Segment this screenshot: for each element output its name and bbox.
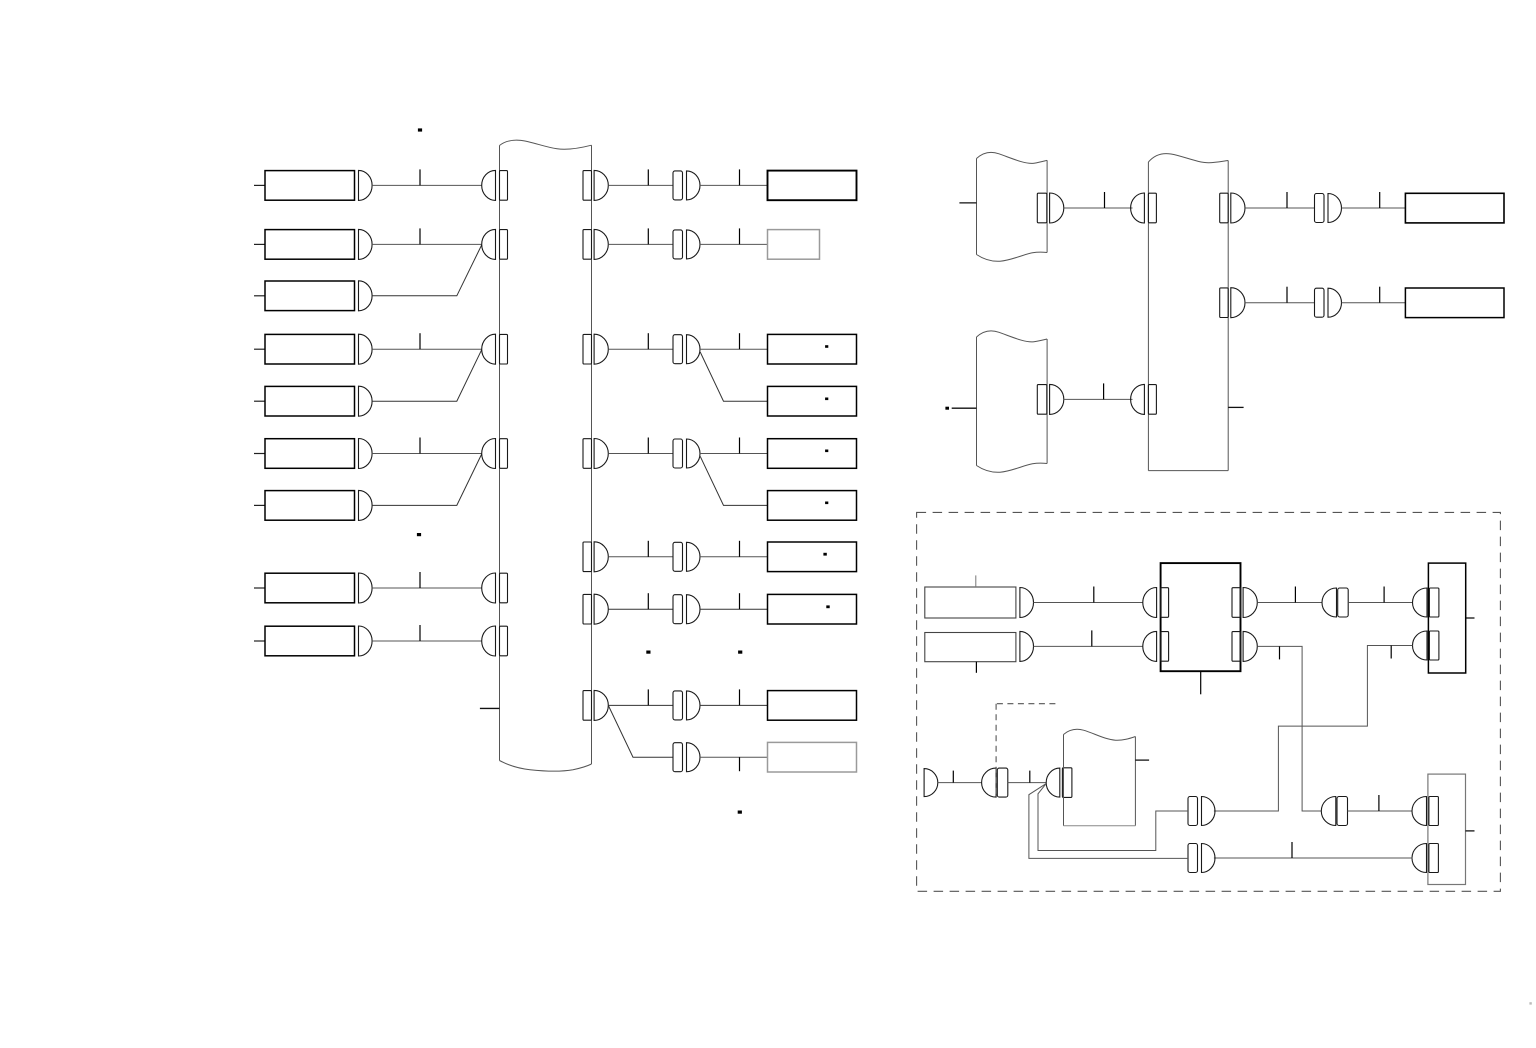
connector plug on B2 — [359, 229, 373, 259]
wire to end box — [1342, 302, 1406, 304]
end box — [768, 491, 857, 521]
trunk W2 left receptacle — [1131, 384, 1145, 414]
trunk W2 right plug — [1220, 288, 1229, 318]
wire B6-W1 — [372, 453, 482, 455]
end box — [768, 594, 857, 624]
trunk W1 left receptacle — [482, 439, 496, 469]
reference dot — [825, 345, 828, 348]
wire to end box — [700, 453, 768, 455]
connector plug on B3 — [359, 281, 373, 311]
wire label tick — [1286, 287, 1288, 303]
U1 left receptacle row2 — [1143, 631, 1157, 661]
wire W1 chain — [608, 556, 673, 558]
wire B3-W1 (merges up) — [372, 245, 482, 296]
junction box J1 — [1428, 563, 1465, 673]
reference dot — [825, 398, 828, 401]
inline connector pair — [1315, 194, 1325, 223]
trunk W1 right plug — [583, 171, 592, 201]
reference dot — [825, 502, 828, 505]
trunk W2 left receptacle — [1131, 193, 1145, 223]
trunk W1 right plug — [583, 334, 592, 364]
stub wire from H3 right — [1135, 759, 1149, 761]
trunk W1 right plug — [583, 230, 592, 260]
wire B4-W1 — [372, 348, 482, 350]
trunk W1 left receptacle — [482, 573, 496, 603]
wire label tick — [1383, 587, 1385, 603]
end box — [768, 386, 857, 416]
wire label tick — [419, 438, 421, 454]
reference dot — [738, 811, 742, 814]
stub on J1 right — [1466, 617, 1475, 619]
wire B7-W1 (merges up) — [372, 454, 482, 505]
component box B4 — [254, 348, 265, 350]
inline connector pair — [673, 439, 683, 468]
inline connector pair — [673, 595, 683, 624]
reference dot — [646, 651, 650, 654]
reference dot — [825, 450, 828, 453]
stub on J2 right — [1466, 830, 1475, 832]
wire label tick — [419, 228, 421, 244]
wire label tick — [647, 689, 649, 705]
component box D1 — [925, 587, 1016, 618]
wire label tick — [1379, 287, 1381, 303]
wire label tick — [647, 169, 649, 185]
wire to inline pair — [938, 782, 982, 784]
end box — [768, 334, 857, 364]
component box B9 — [254, 640, 265, 642]
wire U1 row1 to J1 — [1257, 602, 1322, 604]
inline connector pair — [673, 230, 683, 259]
wire row B — [1214, 857, 1413, 859]
wire W1 chain — [608, 704, 673, 706]
component box B7 — [254, 504, 265, 506]
J2 receptacle row1 — [1412, 797, 1427, 826]
wire B2-W1 — [372, 243, 482, 245]
feeder bundle H1 (broken ends) — [976, 159, 978, 255]
trunk W1 left receptacle — [482, 334, 496, 364]
wire label tick — [419, 333, 421, 349]
wire label tick — [1029, 771, 1031, 783]
inline connector pair — [673, 542, 683, 571]
wire label tick — [739, 689, 741, 705]
fan-out wire down from W1 row7 — [608, 705, 673, 757]
connector plug on B1 — [359, 170, 373, 200]
wire to end box — [700, 756, 768, 758]
wire label tick — [739, 757, 741, 771]
wire to end box — [700, 704, 768, 706]
wire to end box — [700, 243, 768, 245]
inline connector pair row B left — [1188, 844, 1198, 873]
wire label tick — [739, 333, 741, 349]
stub wire into H1 — [959, 202, 976, 204]
wire row A to J2 — [1348, 810, 1413, 812]
connector plug on B8 — [359, 573, 373, 603]
wire label tick — [739, 228, 741, 244]
wire label tick — [739, 438, 741, 454]
end box — [768, 230, 820, 260]
branch wire 2 (loops to row B) — [1029, 784, 1188, 859]
dashed enclosure (detail view) — [917, 512, 1501, 891]
end box — [768, 542, 857, 572]
wire D2-U1 — [1034, 645, 1143, 647]
inline connector pair row A mid (reversed) — [1321, 797, 1336, 826]
reference dot — [417, 533, 421, 536]
stub on D2 bottom — [975, 662, 977, 673]
wire B1-W1 — [372, 184, 482, 186]
feeder bundle H3 (broken top) — [1063, 735, 1065, 826]
wire label tick — [1379, 192, 1381, 208]
U1 left receptacle row1 — [1143, 588, 1157, 618]
component box B6 — [254, 453, 265, 455]
trunk W1 right plug — [583, 691, 592, 721]
stub wire into W1 left edge — [480, 707, 500, 709]
inline connector pair (reversed) — [1322, 588, 1337, 617]
inline connector pair — [673, 335, 683, 364]
wire W1 row4 — [608, 453, 673, 455]
inline connector pair (reversed) — [982, 768, 997, 797]
wire W1 chain — [608, 608, 673, 610]
wire J1 row2 (S-route down to row A left connector) — [1214, 646, 1413, 812]
wire H1-W2 — [1064, 207, 1133, 209]
wire W1 chain — [608, 243, 673, 245]
reference dot — [823, 553, 826, 556]
J1 receptacle row2 — [1413, 631, 1428, 660]
trunk W1 left receptacle — [482, 626, 496, 656]
harness trunk W1 (vertical cable bundle, broken ends) — [499, 146, 501, 761]
component box B5 — [254, 400, 265, 402]
component box B1 — [254, 184, 265, 186]
stub on U1 bottom — [1200, 671, 1202, 694]
wire D1-U1 — [1034, 602, 1143, 604]
end box — [768, 691, 857, 721]
wire label tick — [1378, 795, 1380, 811]
wire label tick — [739, 169, 741, 185]
wire to end box — [700, 608, 768, 610]
junction box J2 — [1428, 774, 1466, 884]
fan-out wire down — [700, 352, 767, 401]
wire label tick — [1390, 646, 1392, 659]
J2 receptacle row2 — [1412, 844, 1427, 873]
wire label tick — [1294, 587, 1296, 603]
connector plug on B5 — [359, 386, 373, 416]
component box B8 — [254, 587, 265, 589]
U1 right plug row1 — [1232, 588, 1241, 618]
inline connector pair row A left — [1188, 797, 1198, 826]
wire B5-W1 (merges up) — [372, 350, 482, 402]
wire label tick — [419, 572, 421, 588]
wire label tick — [1093, 587, 1095, 603]
inline connector pair — [673, 743, 683, 772]
wire label tick — [1279, 646, 1281, 659]
reference dot — [826, 605, 829, 608]
trunk W1 right plug — [583, 439, 592, 469]
wire B8-W1 — [372, 587, 482, 589]
wire label tick — [1103, 383, 1105, 399]
inline connector pair — [673, 171, 683, 200]
wire to H3 — [1008, 782, 1046, 784]
trunk W2 right plug — [1220, 193, 1229, 223]
end box — [768, 742, 857, 772]
inline connector pair — [673, 691, 683, 720]
inner dashed boundary — [997, 703, 1059, 705]
wire label tick — [647, 541, 649, 557]
wire W1 row3 — [608, 348, 673, 350]
feeder bundle H2 (broken ends) — [976, 337, 978, 466]
wire to J1 — [1348, 602, 1412, 604]
U1 right plug row2 — [1232, 632, 1241, 662]
stub on D1 top — [975, 575, 977, 587]
stub wire into H2 — [952, 407, 977, 409]
wire label tick — [647, 438, 649, 454]
wire label tick — [647, 593, 649, 609]
wire B9-W1 — [372, 640, 482, 642]
trunk W1 right plug — [583, 542, 592, 572]
faint reference dot — [1529, 1002, 1531, 1004]
connector plug on B4 — [359, 334, 373, 364]
connector plug on B6 — [359, 439, 373, 469]
connector plug on B9 — [359, 626, 373, 656]
end box (bold) — [1405, 193, 1504, 223]
cable end connector (lone plug) — [924, 769, 938, 797]
wire label tick — [647, 333, 649, 349]
reference dot — [945, 407, 949, 410]
wire to end box — [700, 556, 768, 558]
trunk W1 left receptacle — [482, 229, 496, 259]
wire U1 row2 (routes down to row A) — [1257, 646, 1321, 811]
wire label tick — [1286, 192, 1288, 208]
wire to end box — [700, 348, 768, 350]
H2 plug — [1037, 385, 1047, 415]
H3 receptacle — [1046, 768, 1060, 797]
wire to end box — [700, 184, 768, 186]
connector plug on B7 — [359, 490, 373, 520]
end box — [768, 439, 857, 469]
J1 receptacle row1 — [1413, 588, 1428, 617]
W2 row2 chain — [1245, 302, 1315, 304]
wire label tick — [1291, 842, 1293, 858]
wire label tick — [647, 228, 649, 244]
H1 plug — [1037, 193, 1047, 223]
connector plug on D2 — [1020, 631, 1034, 661]
component box B2 — [254, 243, 265, 245]
wire H2-W2 — [1064, 398, 1133, 400]
trunk W1 left receptacle — [482, 170, 496, 200]
wire label tick — [739, 593, 741, 609]
harness trunk W2 (broken top) — [1147, 162, 1149, 471]
junction box U1 (bold) — [1161, 563, 1241, 671]
wire label tick — [419, 169, 421, 185]
stub wire from W2 right edge — [1228, 406, 1243, 408]
wire label tick — [952, 771, 954, 783]
branch wire 1 (loops to row A) — [1038, 784, 1188, 851]
wire label tick — [739, 541, 741, 557]
wire label tick — [1104, 192, 1106, 208]
fan-out wire down — [700, 456, 767, 505]
reference dot — [418, 128, 422, 131]
W2 row1 chain — [1245, 207, 1315, 209]
inline connector pair — [1315, 288, 1325, 317]
reference dot — [738, 651, 742, 654]
wire W1 chain — [608, 184, 673, 186]
connector plug on D1 — [1020, 588, 1034, 618]
wire label tick — [1091, 630, 1093, 646]
wire to end box — [1342, 207, 1406, 209]
end box — [1405, 288, 1504, 318]
wire label tick — [419, 625, 421, 641]
end box — [768, 171, 857, 201]
component box D2 — [925, 633, 1016, 662]
component box B3 — [254, 295, 265, 297]
trunk W1 right plug — [583, 594, 592, 624]
